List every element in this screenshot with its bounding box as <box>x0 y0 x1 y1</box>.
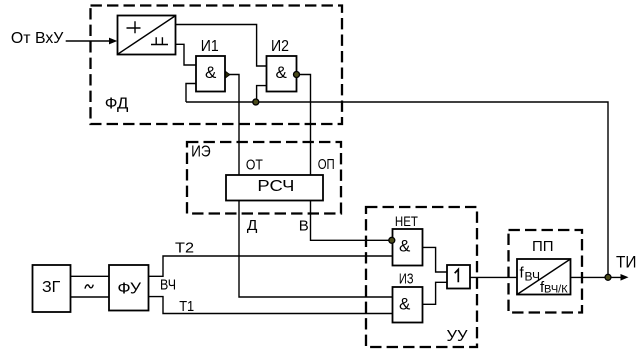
svg-text:ЗГ: ЗГ <box>42 279 61 296</box>
svg-text:ВЧ: ВЧ <box>525 269 540 283</box>
svg-text:РСЧ: РСЧ <box>257 178 294 195</box>
svg-text:НЕТ: НЕТ <box>395 214 418 229</box>
svg-text:ТИ: ТИ <box>616 253 637 272</box>
svg-text:Т1: Т1 <box>179 298 194 315</box>
svg-text:ВЧ: ВЧ <box>160 278 176 294</box>
svg-text:&: & <box>276 63 288 82</box>
svg-text:ФД: ФД <box>105 96 129 113</box>
svg-text:ВЧ/К: ВЧ/К <box>544 284 568 296</box>
svg-text:ОП: ОП <box>318 156 335 173</box>
svg-text:&: & <box>399 295 411 314</box>
svg-text:Т2: Т2 <box>175 240 194 257</box>
svg-text:ИЗ: ИЗ <box>399 271 414 288</box>
svg-text:И2: И2 <box>271 38 289 55</box>
svg-text:&: & <box>399 237 411 256</box>
svg-text:&: & <box>205 63 217 82</box>
svg-text:ПП: ПП <box>532 238 554 255</box>
svg-text:И1: И1 <box>201 38 219 55</box>
svg-text:В: В <box>299 217 309 234</box>
svg-text:ИЭ: ИЭ <box>191 143 211 160</box>
svg-text:ФУ: ФУ <box>117 281 142 298</box>
svg-text:ОТ: ОТ <box>246 156 263 173</box>
svg-text:От ВхУ: От ВхУ <box>11 30 64 47</box>
svg-text:Д: Д <box>247 217 258 234</box>
svg-text:УУ: УУ <box>447 328 469 345</box>
